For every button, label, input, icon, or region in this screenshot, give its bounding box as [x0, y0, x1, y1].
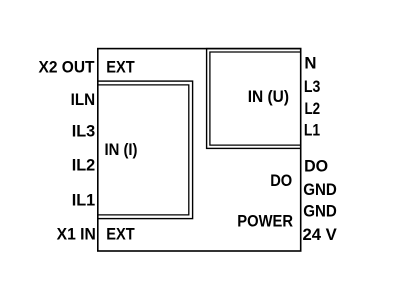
- svg-text:IN (I): IN (I): [105, 140, 138, 159]
- svg-text:L3: L3: [304, 77, 320, 96]
- svg-text:X2 OUT: X2 OUT: [39, 57, 96, 76]
- svg-text:ILN: ILN: [71, 90, 96, 109]
- svg-text:IN (U): IN (U): [248, 87, 289, 106]
- svg-text:GND: GND: [303, 180, 337, 199]
- svg-text:IL2: IL2: [72, 155, 96, 174]
- svg-text:GND: GND: [303, 201, 337, 220]
- svg-text:POWER: POWER: [237, 212, 293, 231]
- svg-text:N: N: [304, 53, 316, 72]
- svg-text:DO: DO: [304, 157, 328, 176]
- svg-text:IL1: IL1: [72, 190, 96, 209]
- block IN (U) outer rect: [207, 49, 301, 149]
- block IN (U) inner rect: [210, 52, 301, 145]
- device outline box: [98, 49, 301, 251]
- svg-text:DO: DO: [270, 171, 292, 190]
- block IN (I) inner rect: [98, 85, 189, 215]
- svg-text:EXT: EXT: [106, 225, 135, 244]
- svg-text:L2: L2: [304, 99, 320, 118]
- svg-text:24 V: 24 V: [302, 225, 337, 244]
- svg-text:EXT: EXT: [106, 57, 135, 76]
- svg-text:X1 IN: X1 IN: [57, 225, 96, 244]
- svg-text:L1: L1: [304, 120, 320, 139]
- block IN (I) outer rect: [98, 81, 193, 219]
- svg-text:IL3: IL3: [72, 121, 96, 140]
